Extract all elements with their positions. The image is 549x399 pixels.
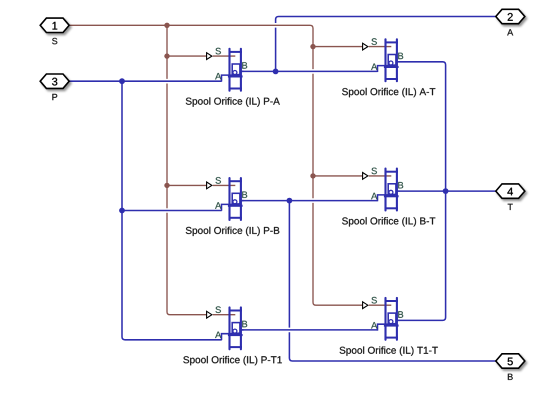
port 4 label T [508,204,513,210]
wire: P-T1 B output to T1-T A-input [241,329,378,331]
port 5 hexagon [496,354,525,368]
junction node S to P-A [164,53,169,58]
port 1 hexagon [40,18,69,32]
spool orifice block P-T1 [207,306,248,349]
wire: A node up to port 2 A [276,17,496,72]
wire: signal branch to P-A S [167,55,206,57]
wire: B-T B output to port 4 T [399,190,496,192]
port 1 label S [52,38,57,44]
junction node S to P-B [164,183,169,188]
junction node S to A-T [310,44,315,49]
spool orifice block P-B [207,177,248,220]
wire: B node vertical down to port 5 B [289,201,495,361]
junction node S bus split [164,23,169,28]
junction node on P bus at P-B branch [119,208,125,214]
port 5 label B [508,374,513,380]
port 3 label P [52,94,57,100]
spool orifice block T1-T [363,297,404,340]
port 2 hexagon [496,9,525,23]
port 2 label A [507,29,513,35]
spool orifice block B-T [363,168,404,211]
wire: signal branch to P-B S [167,184,206,186]
port 4 hexagon [496,184,525,198]
wire: A-T B output down to T1-T B output (T bus) [399,62,446,321]
wire: right signal bus vertical to T1-T S [313,44,362,305]
wire: P vertical bus down to P-T1 A-input [122,81,222,340]
wire: left signal bus vertical to P-T1 S [167,25,206,314]
wire: signal branch to B-T S [313,175,362,177]
spool orifice block A-T [363,38,404,81]
junction node S to B-T [310,173,315,178]
wire: port 1 S to signal bus (brown) [70,25,313,44]
wire: signal branch to A-T S [313,46,362,48]
junction node P-B B / port B [287,198,293,204]
junction node P-A B / port A [273,69,279,75]
wire: port 3 P to P-A A-input [69,80,222,82]
wire: P-A B output to A-T A-input [241,70,378,72]
port 3 hexagon [40,74,69,88]
wire: P-B B output to B-T A-input [241,200,378,202]
wire: P bus branch to P-B A-input [122,210,222,212]
spool orifice block P-A [207,48,248,91]
junction node on P bus at port 3 [119,78,125,84]
junction node T bus / port T [443,188,449,194]
